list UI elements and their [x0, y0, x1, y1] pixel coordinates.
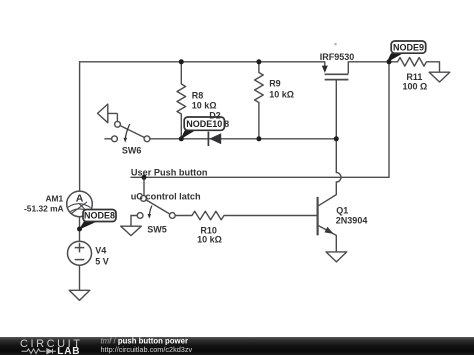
source lead [324, 62, 326, 66]
AM1 gauge face [68, 204, 91, 208]
node junction NODE9 [387, 59, 392, 64]
wire PMOS gate lead [335, 80, 337, 138]
svg-text:NODE8: NODE8 [84, 211, 115, 221]
source arrow [322, 66, 328, 73]
SW5 left throw stub to ground [131, 216, 137, 227]
ammeter AM1 [24, 191, 92, 217]
svg-text:R8: R8 [192, 90, 204, 100]
voltage source V4 [68, 241, 109, 266]
svg-text:NODE9: NODE9 [393, 42, 424, 52]
svg-text:10 kΩ: 10 kΩ [269, 90, 294, 100]
resistor R11 [389, 58, 440, 73]
node junction gate/collector [334, 136, 339, 141]
svg-text:LAB: LAB [57, 346, 80, 355]
svg-text:10 kΩ: 10 kΩ [197, 235, 222, 245]
diode D2 1N4148 [198, 119, 230, 146]
wire left rail down to ammeter [79, 62, 81, 191]
svg-text:D2: D2 [209, 111, 221, 121]
SW5 terminal top [141, 196, 147, 202]
node junction R8 bottom [179, 136, 184, 141]
R11 name and value labels [403, 72, 428, 92]
channel bar [325, 73, 349, 75]
wire ammeter to V4 [79, 217, 81, 242]
node NODE8 label [79, 210, 116, 230]
gate bar [325, 79, 349, 81]
node junction R9 bottom [256, 136, 261, 141]
D2 anode triangle [209, 133, 221, 144]
switch SW5 (uC control latch) [131, 196, 175, 235]
transistor Q1 2N3904 [318, 139, 368, 252]
resistor R10 [175, 211, 316, 220]
SW6 lever [118, 124, 148, 139]
svg-text:SW6: SW6 [122, 145, 142, 155]
Q1 collector lead with wire hop [319, 139, 341, 206]
Q1 emitter arrow [325, 228, 333, 234]
node junction push button / SW5 [142, 175, 147, 180]
wire push button net [131, 176, 389, 178]
SW6 terminal common [144, 136, 150, 142]
svg-text:2N3904: 2N3904 [336, 216, 368, 226]
resistor R8 [177, 62, 186, 139]
footer bar [0, 337, 474, 355]
wire drain rail to NODE9 [348, 61, 389, 63]
svg-text:-51.32 mA: -51.32 mA [24, 203, 64, 213]
wire top rail V+ [80, 61, 325, 63]
Q1 emitter lead [319, 226, 337, 252]
V4 minus sign [75, 259, 85, 261]
SW5 actuator arrow [149, 206, 152, 216]
V4 plus sign [75, 243, 85, 253]
drain lead [347, 62, 349, 74]
svg-text:5 V: 5 V [95, 257, 109, 267]
SW6 actuator arrow [125, 124, 129, 138]
wire SW5 drop [143, 177, 145, 195]
SW5 lever [144, 198, 173, 215]
wire NODE9 drop [388, 62, 390, 178]
resistor R9 [255, 62, 264, 139]
ground (SW5 left throw) [121, 226, 142, 235]
svg-text:10 kΩ: 10 kΩ [192, 100, 217, 110]
node junction NODE8 [77, 227, 82, 232]
SW6 left throw stub [104, 138, 111, 140]
SW6 rotated ground [98, 104, 118, 123]
svg-text:R9: R9 [269, 79, 281, 89]
R8 name and value labels [192, 90, 217, 110]
node junction R8 top [179, 59, 184, 64]
R9 name and value labels [269, 79, 294, 100]
switch SW6 (user push button) [98, 104, 150, 155]
wire mid horizontal net (gate pulldown) [150, 138, 336, 140]
svg-text:A: A [76, 192, 84, 204]
svg-text:IRF9530: IRF9530 [320, 52, 355, 62]
node junction R9 top [256, 59, 261, 64]
svg-text:AM1: AM1 [46, 194, 64, 204]
svg-text:uC control latch: uC control latch [131, 191, 201, 201]
svg-text:http://circuitlab.com/c2kd3zv: http://circuitlab.com/c2kd3zv [101, 345, 193, 354]
svg-text:V4: V4 [95, 246, 106, 256]
R10 name and value labels [197, 226, 222, 245]
SW5 terminal common [169, 213, 175, 219]
MOSFET U1 IRF9530 (PMOS) [320, 52, 355, 80]
svg-text:R11: R11 [406, 72, 422, 82]
svg-text:Q1: Q1 [336, 206, 348, 216]
node NODE9 label [387, 41, 426, 63]
SW5 terminal left [137, 213, 143, 219]
svg-text:100 Ω: 100 Ω [403, 82, 428, 92]
ground (right of R11) [429, 72, 450, 82]
ground (under Q1 emitter) [326, 252, 347, 262]
node NODE10 label [180, 111, 224, 140]
Q1 base bar [317, 197, 319, 235]
SW6 terminal top [115, 121, 121, 127]
svg-text:SW5: SW5 [147, 225, 167, 235]
SW6 ground bend to top throw [116, 113, 118, 121]
D2 cathode bar [207, 132, 209, 146]
SW6 terminal left [112, 136, 118, 142]
wire V4 to ground [79, 265, 81, 290]
ground (under V4) [69, 290, 90, 300]
